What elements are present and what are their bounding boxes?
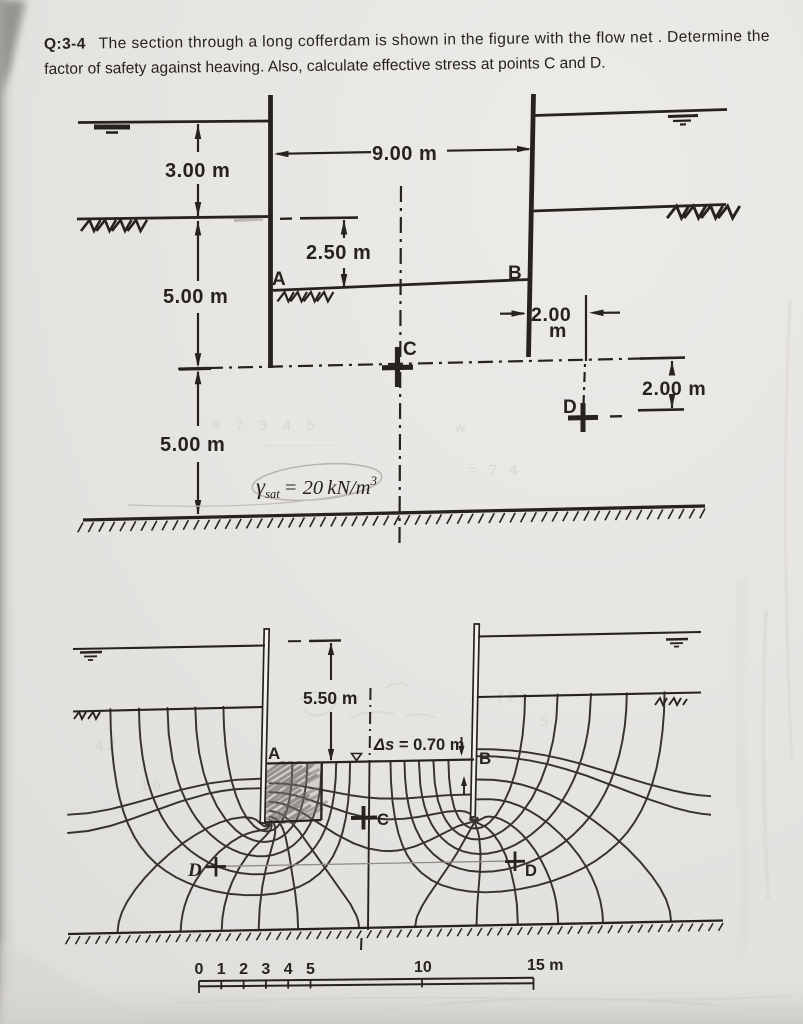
- faint bleed-through marks lower: [95, 689, 548, 794]
- svg-text:D: D: [525, 862, 537, 880]
- bottom impervious boundary line: [68, 921, 723, 935]
- centerline to D (dash-dot): [584, 364, 586, 404]
- dimension 9.00 m: [277, 152, 371, 154]
- svg-text:C: C: [377, 811, 389, 829]
- vertical centerline (dash-dot): [400, 186, 402, 545]
- right border of shaded cell: [320, 763, 323, 821]
- svg-text:3: 3: [261, 961, 270, 978]
- short reference line for 2.50 m: [300, 216, 358, 219]
- svg-text:w: w: [454, 419, 466, 435]
- right ground surface line: [532, 205, 726, 212]
- dimension 2.00 m (horizontal): [500, 312, 524, 314]
- svg-text:5: 5: [306, 961, 315, 978]
- svg-text:15 m: 15 m: [527, 957, 563, 974]
- faint bleed-through marks: [212, 417, 522, 479]
- svg-text:C: C: [403, 339, 417, 360]
- left water surface line: [78, 121, 270, 123]
- svg-text:9.00 m: 9.00 m: [372, 143, 437, 165]
- svg-text:1: 1: [217, 961, 226, 978]
- soil hatch symbol at A: [277, 292, 294, 301]
- water symbol right (lower): [666, 638, 688, 641]
- water level symbol left: [94, 125, 130, 130]
- scale bar end/tick marks: [198, 981, 200, 993]
- dimension 5.00 m (upper): [197, 221, 199, 281]
- svg-text:5.50 m: 5.50 m: [303, 688, 357, 708]
- faint creases: [420, 998, 803, 1009]
- svg-text:5.00 m: 5.00 m: [163, 286, 228, 308]
- dimension 2.50 m: [343, 220, 345, 238]
- dimension 5.00 m (lower): [197, 372, 199, 426]
- svg-text:__________: __________: [261, 436, 338, 447]
- svg-text:B: B: [508, 263, 522, 284]
- svg-text:3.00 m: 3.00 m: [165, 160, 230, 182]
- point D cross (upper): [568, 415, 598, 421]
- svg-text:D: D: [563, 397, 577, 418]
- svg-text:A: A: [272, 269, 286, 290]
- thick tick at dimension crossing: [179, 367, 211, 371]
- lower reference tick for 2.00 m: [638, 408, 684, 411]
- horizontal dash-dot line at tip level: [178, 358, 683, 369]
- svg-text:D: D: [187, 860, 202, 881]
- point C cross (lower): [351, 816, 377, 820]
- dimension 5.50 m: [330, 643, 332, 680]
- small dash left of 2.50 reference line: [280, 217, 292, 220]
- left sheet-pile wall (upper fig): [268, 95, 273, 368]
- svg-text:5: 5: [540, 713, 548, 730]
- short dash right of D: [610, 415, 622, 418]
- soil marks left ground (lower): [74, 712, 100, 719]
- small arrow up below floor at B: [463, 780, 465, 795]
- left sheet-pile wall (lower fig): [260, 629, 269, 823]
- left water line (lower fig): [73, 646, 265, 650]
- svg-text:4: 4: [284, 961, 293, 978]
- svg-text:2: 2: [239, 961, 248, 978]
- bottom shadow band: [0, 978, 803, 1024]
- faint pencil smudge on ground line: [234, 219, 263, 221]
- svg-text:8 7 3 4 5: 8 7 3 4 5: [212, 417, 321, 433]
- faint pencil line between D points: [220, 861, 512, 866]
- soil marks right ground (lower): [655, 698, 687, 705]
- scale bar double line: [199, 978, 534, 981]
- svg-text:2.00 m: 2.00 m: [642, 378, 706, 400]
- left ground surface line: [77, 217, 270, 220]
- svg-text:= 7 4: = 7 4: [468, 462, 522, 479]
- right water line (lower fig): [478, 632, 701, 637]
- soil hatch symbol left ground: [81, 220, 101, 231]
- water level symbol right: [668, 116, 698, 117]
- svg-text:B: B: [479, 749, 491, 768]
- right water surface line: [534, 110, 727, 116]
- centerline dash below bottom line: [360, 938, 363, 950]
- point D cross (lower left): [206, 865, 226, 868]
- lower boundary line (hatched) upper fig: [83, 506, 705, 520]
- svg-text:10: 10: [414, 959, 432, 976]
- right sheet-pile wall (lower fig): [471, 624, 480, 817]
- excavation floor line (lower fig): [266, 760, 474, 764]
- point D cross (lower right): [505, 860, 525, 863]
- left edge scan shadow: [0, 0, 16, 1024]
- right sheet-pile wall (upper fig): [529, 94, 534, 357]
- centerline dash-dot above floor: [369, 688, 372, 757]
- point C cross (upper): [382, 365, 413, 371]
- soil hatch symbol right ground: [667, 206, 689, 218]
- small arrow down at B: [461, 737, 463, 752]
- upper reference tick for 2.00 m: [640, 358, 685, 359]
- svg-text:5.00 m: 5.00 m: [160, 434, 225, 456]
- excavation floor line A-B (upper fig): [270, 280, 528, 291]
- open water-level triangle on floor: [352, 754, 362, 761]
- left ground line (lower fig): [73, 707, 263, 712]
- svg-text:2.50 m: 2.50 m: [306, 242, 371, 264]
- scale bar labels: [195, 957, 564, 978]
- svg-text:A: A: [268, 744, 280, 763]
- water symbol left (lower): [80, 651, 102, 654]
- center symmetry line (solid below floor): [368, 760, 370, 930]
- dimension 3.00 m: [197, 124, 199, 152]
- bottom border of shaded cell: [263, 820, 321, 823]
- svg-text:0: 0: [195, 961, 204, 978]
- question text: [44, 28, 770, 78]
- top reference dashes for 5.50 m: [288, 640, 301, 642]
- sketched ellipse around formula: [251, 459, 384, 505]
- top-left dark corner: [0, 0, 26, 95]
- svg-text:Δs = 0.70 m: Δs = 0.70 m: [373, 736, 464, 754]
- svg-text:m: m: [549, 320, 567, 342]
- vertical reference line through D: [585, 295, 587, 361]
- dimension 2.00 m (vertical): [671, 361, 673, 374]
- right ground line (lower fig): [478, 693, 701, 698]
